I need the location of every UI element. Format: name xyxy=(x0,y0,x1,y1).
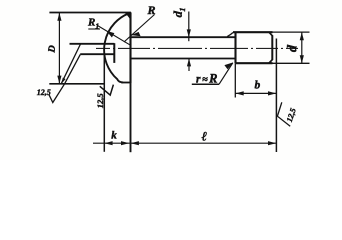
dimension D bottom extension line xyxy=(49,83,104,85)
svg-text:ℓ: ℓ xyxy=(202,129,208,144)
k right extension (face line extended) xyxy=(130,83,132,152)
R arrowhead xyxy=(131,32,140,36)
thread runout curve xyxy=(227,33,233,37)
k left arrow xyxy=(104,141,112,145)
head corner blend fill xyxy=(124,12,131,21)
d1 upper (down) arrow xyxy=(187,29,191,37)
dimension k and l line xyxy=(93,142,276,144)
roughness mark left: tick xyxy=(49,84,65,102)
d1 dimension line upper xyxy=(188,12,190,42)
l left arrow xyxy=(131,141,139,145)
r≈R shelf underline xyxy=(192,83,219,85)
dimension b line xyxy=(235,92,276,94)
roughness mark middle: tick xyxy=(100,85,114,96)
end chamfer top xyxy=(269,32,272,36)
b right arrow xyxy=(268,91,276,95)
axis center line xyxy=(96,47,298,49)
d down arrow xyxy=(300,55,304,63)
head spherical arc R1 xyxy=(104,13,130,83)
roughness mark right: tick xyxy=(277,102,290,126)
svg-text:d1: d1 xyxy=(171,7,188,18)
r≈R leader line xyxy=(219,63,233,85)
svg-text:12,5: 12,5 xyxy=(37,88,51,97)
d bottom extension line xyxy=(273,62,310,64)
roughness left small arrowhead xyxy=(61,78,65,84)
svg-text:k: k xyxy=(111,129,117,141)
slot upper line xyxy=(70,43,115,45)
svg-text:R1: R1 xyxy=(87,17,99,31)
roughness left leader to lower slot line xyxy=(64,54,80,84)
svg-text:d: d xyxy=(284,44,299,52)
d1 dimension line lower xyxy=(188,59,190,71)
D top extension line xyxy=(49,12,130,14)
k left extension (from head extremity) xyxy=(103,54,105,152)
slot lower line xyxy=(80,53,114,55)
R leader line xyxy=(124,15,155,43)
dimension D up arrow xyxy=(57,13,61,21)
d up arrow xyxy=(300,32,304,40)
svg-text:12,5: 12,5 xyxy=(285,107,298,123)
shank top line xyxy=(131,36,236,38)
thread start vertical xyxy=(234,32,236,63)
d top extension line xyxy=(273,31,310,33)
roughness left leader to upper slot line xyxy=(61,44,81,84)
svg-text:r≈R: r≈R xyxy=(196,71,218,85)
d1 lower (up) arrow xyxy=(187,59,191,67)
dimension d line xyxy=(301,32,303,63)
svg-text:12,5: 12,5 xyxy=(95,93,105,109)
head bearing face xyxy=(129,12,131,83)
slot depth vertical xyxy=(113,43,115,63)
R1 leader line xyxy=(98,26,130,45)
r≈R arrowhead xyxy=(224,62,233,69)
b left extension line xyxy=(234,63,236,97)
label R1 underline xyxy=(88,28,100,30)
svg-text:D: D xyxy=(46,45,58,54)
l right arrow xyxy=(268,141,276,145)
head bottom rim edge xyxy=(121,82,131,84)
k right arrow xyxy=(121,141,129,145)
R1 arrowhead xyxy=(106,31,114,38)
b left arrow xyxy=(236,91,244,95)
shank bottom line xyxy=(131,58,236,60)
svg-text:b: b xyxy=(255,80,261,92)
dimension D line xyxy=(58,13,60,84)
thread bottom line and d bottom extension xyxy=(236,62,273,64)
thread outer profile with chamfered end xyxy=(233,31,273,33)
dimension D down arrow xyxy=(57,76,61,84)
end face / b,l right extension line xyxy=(275,39,277,153)
end chamfer bottom xyxy=(269,59,272,63)
end face xyxy=(271,35,273,60)
